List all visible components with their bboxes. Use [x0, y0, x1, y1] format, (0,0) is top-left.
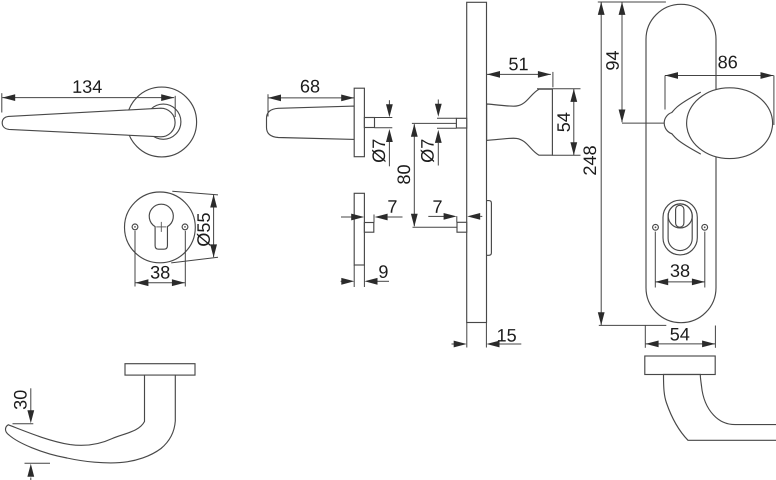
dim 94 arrow down: [619, 110, 626, 123]
dim O55 arrow up: [210, 195, 217, 208]
euro profile keyhole: [149, 204, 173, 249]
dim 7D line left: [341, 216, 352, 218]
dim 86 arrow right: [761, 72, 774, 79]
dim O55 extension top: [172, 191, 218, 195]
dim 68 label: [301, 80, 319, 93]
dim O7C label: [372, 140, 385, 163]
dim 30 label: [14, 390, 27, 409]
dim 51 arrow right: [538, 71, 551, 78]
dim 30 extension bottom: [25, 462, 51, 464]
lever bent view: [5, 375, 175, 463]
plate H edge bar: [645, 356, 715, 375]
dim 38F line: [655, 281, 705, 283]
dim 94 label: [606, 51, 619, 70]
dim 80 extension bottom: [413, 226, 457, 228]
knob neck bump: [664, 92, 701, 154]
lever L1 front view: [2, 108, 175, 137]
rosette D edge view: [354, 193, 364, 265]
dim 54F line: [646, 343, 716, 345]
dim 86 label: [718, 56, 737, 69]
oval cylinder rosette outer: [663, 200, 697, 255]
dim 68 extension left: [267, 94, 269, 116]
dim 80 extension top: [412, 122, 457, 124]
spindle stub C: [364, 118, 374, 128]
dim 38B arrow right: [172, 279, 185, 286]
oval cylinder rosette inner: [668, 204, 692, 251]
dim 38F extension right: [704, 232, 706, 288]
dim 54E label: [557, 113, 570, 132]
dim 134 extension line left: [1, 93, 3, 112]
dim 15 line left: [452, 343, 455, 345]
dim 134 arrow left: [2, 94, 15, 101]
dim 15 label: [498, 329, 516, 342]
dim 38B arrow left: [135, 279, 148, 286]
dim 86 extension right: [773, 76, 775, 126]
dim 68 arrow right: [341, 95, 354, 102]
dim 94 line: [621, 2, 623, 122]
dim 9 extension right: [363, 265, 365, 287]
dim 7D extension: [373, 215, 375, 223]
dim 51 arrow left: [487, 71, 500, 78]
dim 38B label: [151, 266, 170, 279]
rosette C edge view: [354, 88, 364, 157]
dim O55 line: [213, 195, 215, 258]
dim O7C extension bottom: [375, 127, 393, 129]
dim 38F label: [671, 264, 690, 277]
grip top view: [267, 106, 355, 139]
dim 248 line: [600, 2, 602, 325]
dim 9 label: [379, 265, 387, 278]
dim 51 label: [509, 58, 528, 71]
dim 51 line: [487, 73, 551, 75]
dim 80 arrow up: [411, 124, 418, 137]
dim O55 arrow down: [210, 244, 217, 257]
dim 134 line: [2, 97, 174, 99]
dim 54E line: [573, 89, 575, 155]
dim O7E extension bottom: [437, 127, 456, 129]
dim 248 extension top: [598, 1, 666, 3]
dim 80 label: [397, 165, 410, 184]
cylinder slot: [676, 205, 684, 227]
dim 248 extension bottom: [599, 324, 667, 326]
dim 54E arrow up: [570, 89, 577, 102]
dim 38F extension left: [654, 232, 656, 288]
dim 54F extension left: [644, 326, 646, 348]
long plate front view: [646, 4, 716, 322]
dim 248 arrow up: [598, 2, 605, 15]
dim 248 arrow down: [598, 312, 605, 325]
screw B right: [182, 224, 188, 230]
dim 15 extension right: [485, 323, 487, 348]
dim 94 arrow up: [619, 2, 626, 15]
dim 7D label: [388, 200, 396, 212]
dim 68 line: [268, 97, 354, 99]
dim O7C arrow down: [388, 100, 390, 105]
dim 86 arrow left: [665, 72, 678, 79]
dim 86 line: [665, 75, 774, 77]
center cross mark: [156, 226, 166, 228]
dim 15 line right: [487, 341, 500, 348]
dim 7E line right: [467, 213, 480, 220]
dim 38F arrow right: [692, 279, 705, 286]
dim 7E line left: [428, 215, 444, 217]
dim 38B extension right: [184, 231, 186, 287]
dim 54E arrow down: [570, 142, 577, 155]
spindle stub E: [456, 118, 466, 128]
cylinder stub E: [457, 222, 467, 232]
cylinder core circle: [668, 204, 692, 228]
dim 134 label: [73, 80, 101, 93]
dim 7E label: [433, 200, 441, 212]
dim 54E extension bottom: [552, 154, 580, 156]
dim 38F arrow left: [655, 279, 668, 286]
dim 7D line right: [375, 214, 388, 221]
dim O7E arrow up: [435, 130, 442, 143]
dim 54F extension right: [714, 326, 716, 348]
dim 30 arrow up: [27, 464, 34, 477]
rosette A collar ring: [146, 104, 181, 139]
dim 15 extension left: [466, 323, 468, 348]
dim 38B line: [135, 282, 185, 284]
knob side profile: [487, 89, 553, 155]
dim 86 extension left: [664, 76, 666, 110]
dim O7C arrow up: [386, 129, 393, 142]
dim 51 extension right: [552, 72, 554, 87]
dim 54F arrow right: [702, 341, 715, 348]
dim 248 label: [583, 146, 596, 175]
security plate edge view: [467, 2, 487, 322]
dim 9 extension left: [353, 265, 355, 287]
dim O7E arrow down: [437, 100, 439, 105]
dim 9 line right: [365, 278, 378, 285]
screw B left: [132, 224, 138, 230]
cylinder cover strip: [486, 201, 491, 256]
rosette B outer circle: [124, 192, 195, 263]
dim 80 arrow down: [411, 214, 418, 227]
knob front ellipse: [687, 88, 773, 159]
dim 9 line left: [341, 280, 342, 282]
dim O55 extension bottom: [171, 257, 218, 263]
dim 30 arrow down: [30, 388, 32, 411]
dim 134 arrow right: [161, 94, 174, 101]
dim O7E extension top: [437, 117, 456, 119]
dim 7E extension: [456, 216, 458, 222]
dim 134 extension line right: [174, 96, 176, 117]
dim 68 arrow left: [268, 95, 281, 102]
dim 54F label: [670, 328, 689, 341]
cylinder stub D: [364, 223, 373, 233]
knob bent view: [664, 375, 776, 441]
dim 38B extension left: [134, 231, 136, 287]
dim 54E extension top: [537, 88, 581, 90]
dim O55 label: [197, 213, 210, 246]
screw F left: [653, 224, 659, 230]
dim 30 extension top: [13, 423, 34, 425]
dim 54F arrow left: [646, 341, 659, 348]
rosette A outer circle: [127, 87, 197, 157]
dim O7E label: [421, 140, 434, 163]
dim O7C extension top: [375, 117, 393, 119]
rosette G edge bar: [125, 364, 195, 375]
dim 80 line: [413, 124, 415, 226]
screw F right: [702, 224, 708, 230]
dim 94 extension bottom: [622, 122, 664, 124]
